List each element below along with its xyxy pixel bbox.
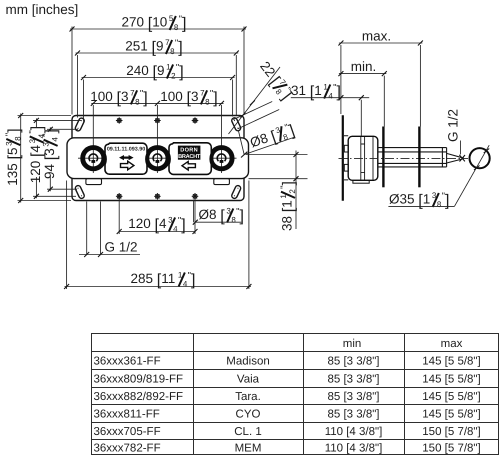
dim text 31 mm xyxy=(291,82,341,101)
flow double arrow icon xyxy=(119,155,134,160)
svg-text:G 1/2: G 1/2 xyxy=(105,240,138,255)
svg-text:110 [4 3/8"]: 110 [4 3/8"] xyxy=(325,426,383,438)
table grid xyxy=(91,334,499,455)
right arrow icon xyxy=(121,161,134,170)
valve 2 ring xyxy=(147,148,168,169)
svg-text:Madison: Madison xyxy=(226,355,269,367)
svg-text:]: ] xyxy=(213,90,217,107)
label box 2 (logo) xyxy=(169,143,211,175)
svg-text:]: ] xyxy=(178,40,182,57)
dim 94 line xyxy=(47,127,78,191)
dim text 240 mm xyxy=(126,62,183,81)
svg-text:DORN: DORN xyxy=(180,148,198,154)
svg-text:85 [3 3/8"]: 85 [3 3/8"] xyxy=(327,373,379,385)
dim text 135 mm rotated xyxy=(4,128,23,185)
svg-text:max.: max. xyxy=(362,29,391,44)
spindle cone tip xyxy=(447,153,464,163)
svg-text:BRACHT: BRACHT xyxy=(178,154,201,160)
left arrow icon xyxy=(182,161,195,170)
wall plate bar side xyxy=(342,115,344,200)
valve 1 ring xyxy=(83,148,104,169)
dim text 22 mm diagonal xyxy=(255,58,296,103)
spindle xyxy=(378,148,447,167)
svg-text:85 [3 3/8"]: 85 [3 3/8"] xyxy=(327,355,379,367)
dim 120 bottom line xyxy=(119,200,195,235)
svg-text:]: ] xyxy=(43,129,60,133)
dim 270 line xyxy=(70,27,246,115)
side texts xyxy=(351,29,461,143)
dim text 285 mm xyxy=(131,270,196,289)
svg-text:36xxx705-FF: 36xxx705-FF xyxy=(94,426,161,438)
dim 120 left line xyxy=(33,118,81,198)
tab slot top-right xyxy=(231,117,242,132)
mounting plate outline xyxy=(72,116,244,201)
dim 135 line xyxy=(18,114,72,203)
dim text 120 mm rotated xyxy=(28,126,47,183)
side ticks xyxy=(338,41,489,171)
panel (valve housing) outline xyxy=(67,138,249,179)
screws top row xyxy=(116,117,198,124)
valve 2 crosshair xyxy=(148,105,169,173)
dim text 94 mm rotated xyxy=(42,129,61,179)
svg-text:36xxx882/892-FF: 36xxx882/892-FF xyxy=(94,391,184,403)
svg-text:min.: min. xyxy=(351,59,377,74)
min wall line xyxy=(382,127,384,188)
valve 3 ring xyxy=(211,148,232,169)
svg-text:min: min xyxy=(343,338,362,350)
svg-text:145 [5 5/8"]: 145 [5 5/8"] xyxy=(422,391,480,403)
valve 3 crosshair xyxy=(211,105,237,173)
max wall line xyxy=(418,127,420,188)
dim 285 line xyxy=(65,181,252,290)
screws bottom row xyxy=(116,193,198,200)
dim text 270 mm xyxy=(122,14,187,33)
svg-text:09.11.11.093.90: 09.11.11.093.90 xyxy=(107,147,145,153)
svg-text:CL. 1: CL. 1 xyxy=(234,426,262,438)
svg-text:]: ] xyxy=(143,90,147,107)
dim 251 line xyxy=(76,53,239,118)
valve 1 crosshair xyxy=(78,105,108,173)
valve body side xyxy=(348,136,378,180)
label box 1 (article number) xyxy=(105,143,147,174)
body foot xyxy=(353,180,369,183)
dia 8 bottom shelf xyxy=(194,200,242,223)
tab slot bottom-right xyxy=(231,185,242,200)
valve 3 cartridge icon xyxy=(217,154,226,161)
svg-text:]: ] xyxy=(182,16,186,33)
svg-text:36xxx361-FF: 36xxx361-FF xyxy=(94,355,161,367)
svg-text:max: max xyxy=(441,338,463,350)
dim text 38 mm rotated xyxy=(279,181,298,231)
G 1/2 leader xyxy=(79,202,140,255)
svg-text:85 [3 3/8"]: 85 [3 3/8"] xyxy=(327,391,379,403)
slot extension diagonals xyxy=(233,102,279,129)
valve 1 cartridge icon xyxy=(89,154,98,161)
dim 240 line xyxy=(82,78,235,122)
dia 35 shelf xyxy=(388,205,454,207)
dimension ticks front xyxy=(18,27,298,290)
dim 22 diagonal line xyxy=(229,67,281,134)
dia 8 text bottom xyxy=(199,206,244,225)
right foot below panel xyxy=(214,179,230,185)
svg-text:150 [5 7/8"]: 150 [5 7/8"] xyxy=(422,442,480,454)
svg-text:]: ] xyxy=(181,217,185,234)
dim 38 front xyxy=(246,151,308,230)
svg-text:36xxx811-FF: 36xxx811-FF xyxy=(94,408,160,420)
svg-text:145 [5 5/8"]: 145 [5 5/8"] xyxy=(422,355,480,367)
svg-text:150 [5 7/8"]: 150 [5 7/8"] xyxy=(422,426,480,438)
svg-text:110 [4 3/8"]: 110 [4 3/8"] xyxy=(325,442,383,454)
dim text 120 mm bottom xyxy=(128,215,185,234)
31 dim line xyxy=(291,98,369,136)
knob circle xyxy=(470,148,490,168)
flange stubs xyxy=(344,136,348,180)
svg-text:]: ] xyxy=(445,193,449,210)
svg-text:]: ] xyxy=(281,181,298,185)
svg-text:]: ] xyxy=(191,272,195,289)
G 1/2 leader side xyxy=(460,141,462,155)
dia 35 leader diagonal xyxy=(454,145,489,206)
tab slot top-left xyxy=(74,117,85,132)
dim text 251 mm xyxy=(125,38,182,57)
svg-text:145 [5 5/8"]: 145 [5 5/8"] xyxy=(422,373,480,385)
svg-text:36xxx782-FF: 36xxx782-FF xyxy=(94,442,161,454)
svg-text:MEM: MEM xyxy=(235,442,262,454)
valve 2 cartridge icon xyxy=(153,154,162,161)
tab slot bottom-left xyxy=(74,185,85,200)
svg-text:36xxx809/819-FF: 36xxx809/819-FF xyxy=(94,373,184,385)
left foot below panel xyxy=(86,179,102,185)
dia 8 text top diagonal xyxy=(248,121,297,153)
mounting clips xyxy=(344,145,348,152)
svg-text:G 1/2: G 1/2 xyxy=(446,109,461,142)
svg-text:145 [5 5/8"]: 145 [5 5/8"] xyxy=(422,408,480,420)
svg-text:]: ] xyxy=(6,128,23,132)
svg-text:]: ] xyxy=(240,208,244,225)
dia 8 top shelf and leader xyxy=(239,131,295,155)
svg-text:Vaia: Vaia xyxy=(237,373,260,385)
DORNBRACHT logo block xyxy=(178,146,201,160)
svg-text:CYO: CYO xyxy=(236,408,261,420)
svg-text:Tara.: Tara. xyxy=(235,391,261,403)
max dim line xyxy=(339,43,423,127)
svg-text:]: ] xyxy=(179,64,183,81)
min dim line xyxy=(339,74,386,127)
dim 100 lines xyxy=(91,102,223,104)
svg-text:mm [inches]: mm [inches] xyxy=(6,2,79,17)
dim text 100 mm right xyxy=(160,88,217,107)
svg-text:85 [3 3/8"]: 85 [3 3/8"] xyxy=(327,408,379,420)
centerline axis xyxy=(339,158,469,160)
dim text 100 mm left xyxy=(90,88,147,107)
dia 35 text xyxy=(389,191,449,210)
body internal lines xyxy=(361,137,373,180)
